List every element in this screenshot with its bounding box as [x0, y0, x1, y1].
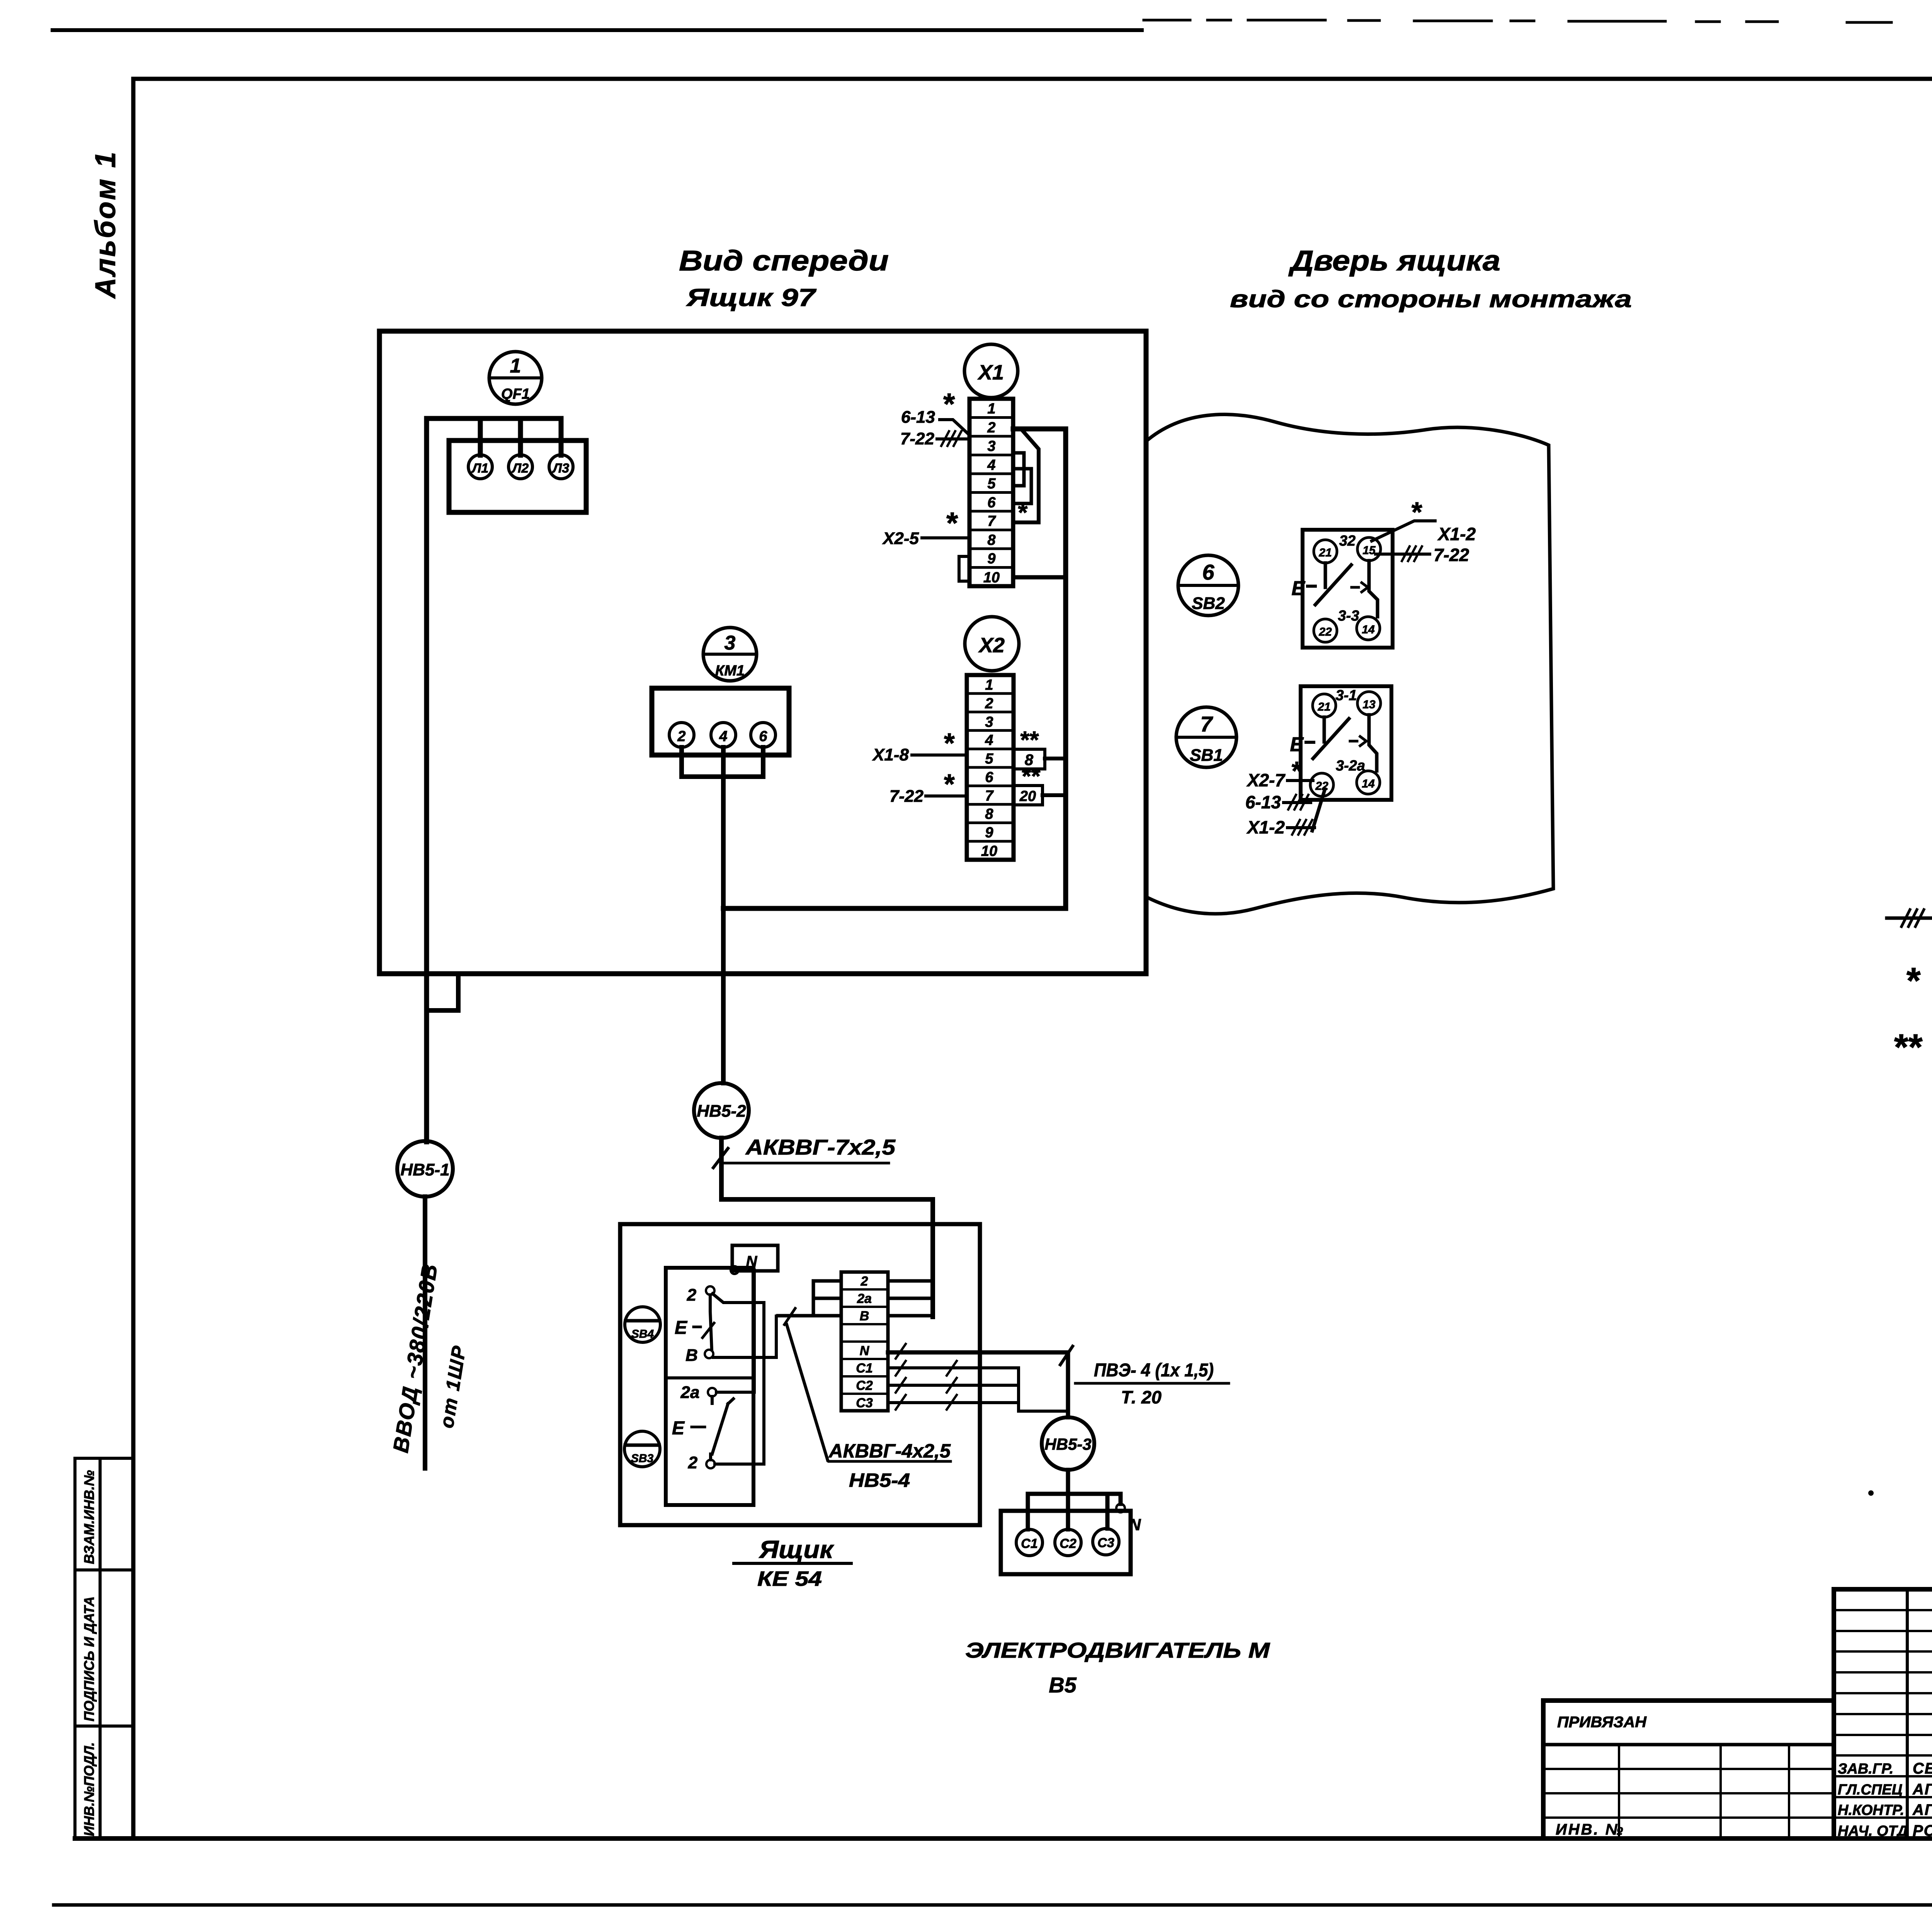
push-button SB2 contact box: [1303, 530, 1393, 648]
svg-text:ЭЛЕКТРОДВИГАТЕЛЬ М: ЭЛЕКТРОДВИГАТЕЛЬ М: [965, 1638, 1270, 1662]
svg-text:SВ3: SВ3: [631, 1452, 654, 1465]
svg-text:С3: С3: [1097, 1536, 1114, 1550]
svg-text:7-22: 7-22: [889, 787, 924, 806]
svg-text:РОЗАНОВ: РОЗАНОВ: [1913, 1822, 1932, 1839]
terminal strip X1 (pins 1-10): [959, 399, 1013, 586]
svg-text:НВ5-1: НВ5-1: [400, 1160, 449, 1179]
svg-text:6: 6: [759, 728, 767, 745]
svg-text:14: 14: [1362, 623, 1375, 636]
svg-text:ПРИВЯЗАН: ПРИВЯЗАН: [1557, 1714, 1647, 1731]
terminal strip X2 (pins 1-10): [967, 675, 1014, 860]
terminal block marker circle X1: [964, 344, 1018, 398]
rotated label: ВВОД ~380/220В: [388, 1261, 442, 1454]
svg-text:2: 2: [987, 420, 995, 436]
svg-text:Х1-8: Х1-8: [872, 745, 909, 764]
svg-text:**: **: [1019, 727, 1039, 753]
svg-text:1: 1: [987, 401, 995, 417]
svg-text:Х2-7: Х2-7: [1246, 770, 1286, 790]
SB2 terminal 14: [1357, 617, 1380, 640]
svg-text:В5: В5: [1049, 1673, 1077, 1697]
svg-text:АКВВГ-7х2,5: АКВВГ-7х2,5: [745, 1135, 896, 1159]
terminal box of KM1 with 2 4 6: [652, 688, 789, 755]
switch SB3 contact (2a / E / 2): [692, 1388, 733, 1468]
svg-text:7: 7: [1200, 712, 1213, 736]
SB1 terminal 22: [1310, 773, 1333, 796]
svg-text:С2: С2: [856, 1378, 873, 1393]
jumper bracket X1 pins 4-5: [1013, 453, 1024, 486]
wire: X1 pin10 to bus: [1013, 575, 1066, 580]
wire: KM1 terminals joined and run down to HB5-2: [682, 747, 763, 1083]
stamp label Инв.№подл.: [81, 1742, 97, 1836]
svg-text:14: 14: [1362, 777, 1375, 790]
svg-text:3: 3: [985, 714, 993, 730]
svg-text:*: *: [1905, 960, 1921, 1001]
svg-text:ЗАВ.ГР.: ЗАВ.ГР.: [1838, 1761, 1893, 1777]
svg-text:4: 4: [985, 732, 993, 748]
wire below HB5-2 down then right to KE54: [721, 1138, 933, 1317]
sheet outer bottom border line: [54, 1903, 1932, 1907]
svg-text:С1: С1: [856, 1361, 872, 1376]
svg-text:Х2: Х2: [978, 634, 1005, 657]
svg-text:22: 22: [1315, 780, 1328, 793]
motor M terminal box: [1001, 1511, 1131, 1574]
sheet inner frame bottom line: [75, 1836, 1932, 1841]
terminal box of QF1 with L1 L2 L3: [449, 440, 586, 512]
terminal L2: [509, 455, 532, 479]
cable slash mark on HB5-2 wire: [713, 1148, 728, 1168]
wire drop to terminal L3: [559, 418, 564, 455]
terminal block marker circle X2: [965, 617, 1019, 671]
vertical margin text: Альбом 1: [89, 150, 121, 299]
stamp label Взам.инв.№: [81, 1470, 97, 1564]
push-button SB1 contact box: [1301, 686, 1391, 800]
SB2 contact symbol: [1324, 563, 1327, 587]
SB2 terminal 22: [1314, 619, 1337, 642]
svg-text:10: 10: [983, 570, 1000, 586]
cable marker circle HB5-1 on supply line: [397, 1141, 453, 1468]
svg-text:КЕ 54: КЕ 54: [757, 1567, 822, 1590]
jumper flag on X1 pins (with *): [1013, 430, 1039, 522]
svg-text:ПОДПИСЬ И ДАТА: ПОДПИСЬ И ДАТА: [81, 1596, 97, 1721]
svg-text:SВ1: SВ1: [1190, 746, 1223, 765]
svg-text:вид со стороны монтажа: вид со стороны монтажа: [1230, 286, 1632, 313]
box 97 enclosure outline (front view): [379, 331, 1146, 974]
device marker circle 3/KM1: [703, 628, 757, 681]
svg-text:3: 3: [987, 438, 995, 454]
svg-text:6-13: 6-13: [1245, 792, 1281, 812]
svg-text:2: 2: [985, 696, 993, 712]
title block: revision table grid: [1834, 1589, 1932, 1838]
svg-text:20: 20: [1019, 788, 1036, 804]
switch SB4 contact (2 / E / B): [694, 1286, 714, 1358]
svg-text:9: 9: [985, 825, 993, 841]
svg-text:НВ5-2: НВ5-2: [697, 1102, 746, 1121]
leader from SB2 pin15 to 7-22 with demontage mark: [1376, 546, 1430, 561]
device marker circle 6/SB2: [1178, 555, 1238, 616]
svg-text:ВЗАМ.ИНВ.№: ВЗАМ.ИНВ.№: [81, 1470, 97, 1564]
small tab on X1 strip: [959, 556, 969, 581]
legend demontage mark symbol: [1887, 910, 1932, 927]
svg-text:8: 8: [985, 806, 993, 822]
svg-text:АГЕЕВ: АГЕЕВ: [1912, 1801, 1932, 1818]
wire jog at box 97 bottom exit: [427, 975, 458, 1010]
stamp label Подпись и дата: [81, 1596, 97, 1721]
svg-text:13: 13: [1362, 698, 1376, 711]
svg-text:В: В: [860, 1309, 869, 1323]
box door torn-sheet outline (view from mounting side): [1148, 415, 1553, 914]
N terminal box on switch: [731, 1245, 778, 1274]
svg-text:2: 2: [861, 1274, 868, 1289]
cable marker circle HB5-2: [694, 1083, 933, 1317]
svg-text:НВ5-4: НВ5-4: [849, 1469, 910, 1491]
SB2 terminal 15: [1357, 537, 1381, 561]
svg-text:6-13: 6-13: [901, 408, 935, 427]
leader from SB2 pin15 to X1-2 with *: [1372, 521, 1435, 541]
switch box inside KE54: [666, 1268, 753, 1505]
svg-text:5: 5: [985, 751, 993, 767]
svg-text:6: 6: [1202, 560, 1214, 584]
svg-text:1: 1: [510, 355, 521, 377]
svg-text:Е: Е: [1290, 733, 1304, 756]
svg-text:АКВВГ-4х2,5: АКВВГ-4х2,5: [828, 1440, 951, 1462]
wire: N row to HB5-3 with slash: [888, 1346, 1073, 1417]
svg-text:ПВЭ- 4 (1х 1,5): ПВЭ- 4 (1х 1,5): [1094, 1360, 1214, 1381]
svg-text:QF1: QF1: [501, 386, 530, 402]
svg-text:10: 10: [981, 843, 997, 859]
cable marker circle HB5-3: [1042, 1417, 1094, 1494]
svg-text:*: *: [1017, 498, 1028, 526]
svg-text:Вид спереди: Вид спереди: [679, 245, 889, 277]
svg-text:2: 2: [677, 728, 685, 745]
rotated label: от 1ШР: [436, 1344, 470, 1430]
svg-text:Х2-5: Х2-5: [882, 529, 919, 548]
svg-text:6: 6: [985, 769, 993, 786]
wires: KE54 strip right rows to HB5-2 bus: [888, 1281, 933, 1316]
wire drop to terminal L2: [518, 418, 523, 455]
stray ink dots: [1868, 1490, 1932, 1742]
svg-text:3: 3: [724, 632, 736, 654]
svg-text:**: **: [1893, 1027, 1923, 1068]
wires: HB5-3 to motor terminals: [1028, 1494, 1125, 1529]
svg-text:ИНВ. №: ИНВ. №: [1556, 1821, 1625, 1838]
remark box 8 on X2 pin5 with **: [1014, 749, 1066, 769]
svg-text:НВ5-3: НВ5-3: [1044, 1435, 1091, 1453]
svg-text:3-3: 3-3: [1338, 608, 1359, 624]
svg-text:7: 7: [987, 513, 996, 529]
svg-text:В: В: [685, 1346, 698, 1365]
svg-text:Л2: Л2: [511, 461, 529, 476]
svg-text:ИНВ.№ПОДЛ.: ИНВ.№ПОДЛ.: [81, 1742, 97, 1836]
svg-text:Т. 20: Т. 20: [1121, 1387, 1162, 1407]
terminal 4: [711, 723, 736, 747]
svg-text:Ящик: Ящик: [759, 1536, 835, 1563]
svg-text:Дверь ящика: Дверь ящика: [1288, 245, 1500, 277]
svg-text:8: 8: [987, 532, 996, 548]
box KE54 enclosure outline: [620, 1224, 980, 1525]
svg-text:КМ1: КМ1: [715, 663, 745, 679]
svg-text:2: 2: [688, 1453, 698, 1472]
wire: supply bus from QF1 terminals going left and down: [427, 418, 561, 1142]
terminal 2: [669, 723, 694, 747]
SB1 terminal 13: [1357, 692, 1381, 715]
SB1 terminal 14: [1357, 771, 1380, 794]
wires: KE54 strip left rows bus: [778, 1281, 841, 1325]
svg-text:7-22: 7-22: [1434, 545, 1469, 565]
svg-text:4: 4: [987, 457, 995, 473]
svg-text:Х1-2: Х1-2: [1246, 817, 1285, 837]
svg-text:4: 4: [719, 728, 727, 745]
svg-text:3-1: 3-1: [1336, 687, 1357, 704]
svg-text:2а: 2а: [857, 1291, 872, 1306]
wires: switch contacts internal runs: [713, 1270, 776, 1464]
device marker circle SB3: [624, 1431, 660, 1467]
svg-text:SВ2: SВ2: [1192, 594, 1225, 613]
device marker circle SB4: [625, 1307, 660, 1342]
svg-text:21: 21: [1317, 701, 1330, 713]
SB2 terminal 21: [1314, 540, 1337, 563]
svg-text:N: N: [860, 1344, 870, 1358]
svg-text:2: 2: [687, 1286, 697, 1304]
sheet inner frame left border: [131, 79, 136, 1838]
title block: left attachment table (Привязан): [1543, 1701, 1834, 1838]
svg-text:Л3: Л3: [552, 461, 569, 476]
sheet inner frame top line: [133, 77, 1932, 81]
wires: C1 C2 C3 rows bundle: [888, 1344, 1068, 1411]
terminal strip in KE54: [841, 1272, 888, 1411]
svg-text:3-2а: 3-2а: [1336, 758, 1365, 774]
svg-text:*: *: [945, 506, 958, 540]
terminal L3: [549, 455, 573, 479]
terminal 6: [751, 723, 776, 747]
motor N terminal: [1116, 1504, 1125, 1512]
motor terminal C3: [1093, 1529, 1119, 1555]
vertical bus wire on right of X1/X2: [1063, 429, 1068, 908]
device marker circle 7/SB1: [1176, 707, 1236, 767]
SB1 contact symbol: [1323, 717, 1326, 742]
svg-text:32: 32: [1339, 533, 1355, 549]
svg-text:7-22: 7-22: [900, 429, 935, 448]
svg-text:7: 7: [985, 788, 994, 804]
svg-text:Е: Е: [672, 1418, 685, 1439]
svg-text:*: *: [1410, 497, 1422, 528]
svg-text:Л1: Л1: [471, 461, 488, 476]
jumper bracket X1 pins 5-6: [1013, 469, 1031, 503]
svg-text:Е: Е: [1291, 577, 1305, 600]
svg-text:SВ4: SВ4: [631, 1328, 654, 1340]
svg-text:НАЧ. ОТД: НАЧ. ОТД: [1838, 1823, 1908, 1839]
stray dashed scan marks above top border: [1144, 20, 1932, 25]
svg-text:С3: С3: [856, 1396, 873, 1410]
wire drop to terminal L1: [478, 418, 483, 455]
remark box 20 on X2 pin7 with **: [1014, 786, 1066, 805]
cable label АКВВГ-4х2,5 / НВ5-4 with leader: [787, 1325, 951, 1461]
svg-text:СЕРГИЕНКО: СЕРГИЕНКО: [1913, 1760, 1932, 1777]
svg-text:15: 15: [1362, 544, 1376, 557]
motor terminal C2: [1055, 1529, 1081, 1556]
svg-text:С2: С2: [1060, 1536, 1077, 1551]
svg-text:Е: Е: [675, 1318, 688, 1338]
svg-text:АГЕЕВ: АГЕЕВ: [1912, 1781, 1932, 1798]
left stamp boxes column: [75, 1458, 133, 1838]
svg-text:Х1-2: Х1-2: [1437, 524, 1476, 544]
svg-text:*: *: [942, 387, 955, 421]
wire: X1 pin2 to vertical bus: [1013, 429, 1066, 908]
svg-text:С1: С1: [1021, 1536, 1037, 1551]
svg-text:Н.КОНТР.: Н.КОНТР.: [1838, 1802, 1904, 1818]
svg-text:Ящик 97: Ящик 97: [686, 284, 817, 311]
svg-text:N: N: [746, 1253, 758, 1270]
svg-text:21: 21: [1318, 546, 1332, 559]
svg-text:Альбом 1: Альбом 1: [89, 150, 121, 299]
sheet outer top border line: [53, 28, 1142, 32]
collector diagonal up to pin22: [1312, 789, 1325, 831]
svg-text:22: 22: [1318, 626, 1332, 638]
svg-text:Х1: Х1: [977, 361, 1004, 384]
wire: bus bottom junction to KM1 drop wire: [723, 906, 1066, 911]
svg-text:ГЛ.СПЕЦ: ГЛ.СПЕЦ: [1838, 1782, 1903, 1798]
svg-text:6: 6: [987, 495, 996, 511]
svg-text:2а: 2а: [680, 1383, 700, 1402]
svg-text:**: **: [1021, 763, 1041, 790]
terminal L1: [468, 455, 492, 479]
svg-text:5: 5: [987, 476, 996, 492]
svg-text:9: 9: [987, 551, 995, 567]
device marker circle 1/QF1: [489, 352, 542, 404]
motor terminal C1: [1016, 1529, 1043, 1556]
SB1 terminal 21: [1313, 694, 1336, 717]
svg-text:1: 1: [985, 677, 993, 693]
